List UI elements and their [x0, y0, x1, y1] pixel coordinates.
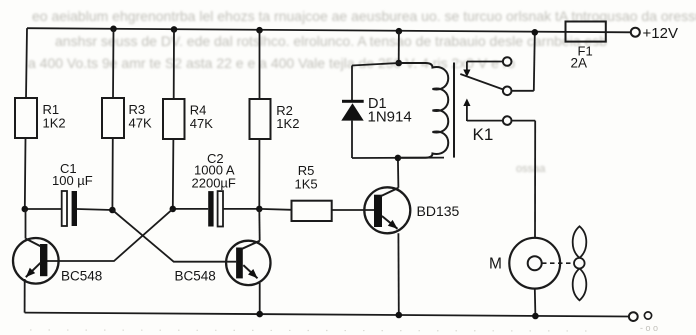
- resistor R2: [250, 99, 300, 139]
- node: rail junction contact branch: [532, 29, 539, 36]
- node: C2 left junction: [170, 206, 177, 213]
- bleed-through ghost text (decorative): [28, 8, 696, 175]
- wire: left column R1 (rail to C1 junction): [25, 28, 27, 209]
- fuse F1 2A: [566, 22, 606, 71]
- wire: R5 to BD135 base: [332, 209, 374, 211]
- svg-text:anshsr seuss de DV. ede dal ro: anshsr seuss de DV. ede dal rotslhco. el…: [55, 33, 607, 49]
- diode D1 1N914: [341, 66, 411, 159]
- node: C1 left junction: [22, 206, 29, 213]
- wire: +12V top supply rail: [27, 28, 631, 32]
- wire: R4 column: [173, 29, 174, 209]
- node: Q2 emitter junction: [256, 311, 263, 318]
- resistor R3: [102, 98, 152, 138]
- wire: R2 column: [258, 30, 260, 209]
- node: collector junction: [395, 155, 402, 162]
- terminal 0V: [629, 312, 652, 321]
- svg-text:47K: 47K: [129, 116, 152, 131]
- capacitor C1: [25, 161, 113, 226]
- svg-text:ossaa: ossaa: [516, 163, 546, 175]
- relay contact 3 (NO, to motor): [467, 116, 535, 238]
- transistor Q3 BD135: [364, 158, 459, 314]
- node: BD135 emitter junction: [396, 312, 403, 319]
- wire: rail to coil top: [398, 31, 400, 63]
- node: rail junction R4: [171, 26, 178, 33]
- svg-text:2A: 2A: [571, 56, 588, 71]
- svg-text:BC548: BC548: [175, 269, 216, 284]
- terminal +12V: [631, 25, 678, 42]
- resistor R1: [15, 98, 66, 138]
- relay contact 1 (top, NC): [463, 57, 511, 77]
- node: rail junction R3: [110, 26, 117, 33]
- svg-text:1K2: 1K2: [43, 116, 66, 131]
- svg-text:2200µF: 2200µF: [192, 176, 236, 191]
- svg-text:100 µF: 100 µF: [52, 173, 93, 188]
- resistor R4: [163, 99, 213, 139]
- relay contact 2 (common, to +12V): [503, 32, 535, 95]
- fan: [573, 226, 587, 300]
- svg-text:BD135: BD135: [417, 203, 460, 219]
- node: coil top junction: [395, 60, 402, 67]
- resistor R5: [259, 163, 331, 221]
- wire: bottom 0V rail: [25, 313, 629, 317]
- shaft (dashed): [542, 262, 574, 264]
- svg-text:K1: K1: [473, 125, 494, 144]
- relay actuation arrow (up): [463, 99, 470, 122]
- svg-text:1N914: 1N914: [368, 109, 412, 126]
- transistor Q1 BC548: [13, 209, 102, 313]
- capacitor C2: [173, 151, 259, 227]
- relay blade (switch arm): [460, 74, 503, 90]
- svg-text:1K2: 1K2: [276, 116, 299, 131]
- svg-text:1K5: 1K5: [295, 177, 318, 192]
- svg-text:BC548: BC548: [61, 269, 102, 284]
- node: C1 right junction: [109, 207, 116, 214]
- svg-text:47K: 47K: [190, 116, 213, 131]
- transistor Q2 BC548: [175, 209, 271, 313]
- wire: coil top horizontal: [352, 63, 399, 66]
- relay armature bar K1: [453, 63, 455, 158]
- wire: coil bottom horizontal: [352, 157, 444, 159]
- node: C2 right junction: [256, 206, 263, 213]
- svg-text:- o o: - o o: [640, 323, 658, 333]
- decorative bottom scan texture: [30, 323, 658, 333]
- node: rail junction R2: [256, 27, 263, 34]
- svg-text:M: M: [489, 256, 502, 273]
- relay coil K1: [399, 63, 448, 158]
- motor M: [489, 238, 560, 316]
- svg-text:+12V: +12V: [643, 25, 678, 42]
- wire: cross-coupling C1 right to Q2 base: [112, 210, 236, 262]
- node: motor junction: [532, 313, 539, 320]
- wire: cross-coupling C2 left to Q1 base: [46, 209, 173, 261]
- wire: R3 column: [112, 29, 113, 210]
- node: rail junction relay branch: [396, 28, 403, 35]
